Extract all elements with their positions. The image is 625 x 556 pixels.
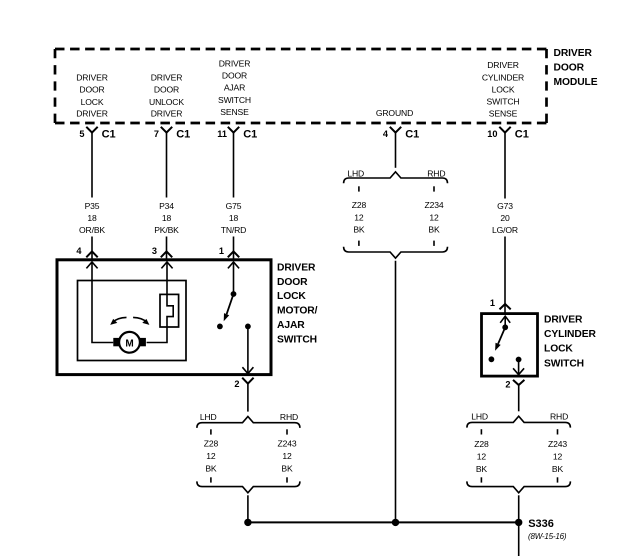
svg-text:DRIVER: DRIVER — [151, 73, 183, 83]
cylinder switch common node — [502, 324, 508, 330]
module U1 driver door module (dashed outline) — [55, 49, 547, 123]
svg-text:4: 4 — [383, 129, 389, 139]
svg-text:2: 2 — [234, 379, 239, 389]
svg-text:18: 18 — [162, 213, 172, 223]
wire label Z28 12 BK (ground LHD) — [352, 200, 367, 235]
svg-text:BK: BK — [552, 464, 564, 474]
svg-text:2: 2 — [505, 380, 510, 390]
entry arrow pin 4 (inside box) — [86, 262, 97, 268]
wire from output node to box bottom — [518, 360, 520, 375]
wire G75 upper segment — [233, 133, 235, 198]
svg-text:OR/BK: OR/BK — [79, 225, 105, 235]
svg-text:CYLINDER: CYLINDER — [544, 329, 596, 340]
svg-text:DOOR: DOOR — [277, 277, 308, 288]
wire P34 upper segment — [166, 133, 168, 198]
wire G73 upper segment — [504, 133, 506, 199]
label: DRIVER DOOR LOCK MOTOR/ AJAR SWITCH — [277, 262, 318, 345]
wire P35 upper segment — [91, 133, 93, 198]
svg-text:DRIVER: DRIVER — [544, 314, 583, 325]
svg-text:SWITCH: SWITCH — [218, 95, 251, 105]
svg-text:12: 12 — [429, 212, 439, 222]
svg-text:LOCK: LOCK — [544, 344, 573, 355]
svg-text:LG/OR: LG/OR — [492, 225, 518, 235]
ajar switch common node — [231, 291, 237, 297]
connector pin 5 C1 — [79, 127, 115, 141]
splice bracket top (right, LHD/RHD) — [467, 412, 571, 428]
inner box around motor assembly — [78, 281, 187, 361]
pin function label: DRIVER CYLINDER LOCK SWITCH SENSE — [482, 60, 524, 119]
svg-text:12: 12 — [354, 212, 364, 222]
svg-text:12: 12 — [206, 451, 216, 461]
svg-text:LOCK: LOCK — [81, 97, 104, 107]
branch stub right LHD — [480, 429, 482, 434]
wire inside box from pin 3 through striker to motor — [147, 263, 174, 343]
svg-text:DRIVER: DRIVER — [554, 48, 593, 59]
branch stub LHD lower — [210, 477, 212, 482]
svg-text:LHD: LHD — [471, 412, 488, 422]
svg-text:3: 3 — [152, 246, 157, 256]
svg-text:C1: C1 — [102, 129, 116, 141]
svg-text:RHD: RHD — [550, 412, 568, 422]
svg-text:AJAR: AJAR — [277, 320, 305, 331]
svg-text:BK: BK — [281, 463, 293, 473]
junction node (ground wire) — [392, 519, 399, 526]
box: driver door lock motor / ajar switch — [57, 260, 271, 375]
wire P35 lower segment — [91, 237, 93, 261]
svg-text:DOOR: DOOR — [222, 71, 247, 81]
svg-text:DRIVER: DRIVER — [219, 59, 251, 69]
svg-text:SWITCH: SWITCH — [487, 97, 520, 107]
connector pin 3 into motor box — [152, 246, 172, 257]
svg-text:DOOR: DOOR — [79, 84, 104, 94]
branch stub ground LHD — [358, 186, 360, 191]
svg-text:12: 12 — [477, 451, 487, 461]
wire label Z243 12 BK (right RHD) — [548, 439, 567, 474]
svg-text:Z243: Z243 — [278, 439, 297, 449]
svg-text:SENSE: SENSE — [489, 109, 518, 119]
wire G75 lower segment — [233, 237, 235, 261]
svg-text:SENSE: SENSE — [220, 107, 249, 117]
wire from right bracket to splice S336 — [518, 495, 520, 522]
svg-text:18: 18 — [87, 213, 97, 223]
svg-text:Z243: Z243 — [548, 439, 567, 449]
rotation arrows over motor — [110, 317, 149, 325]
svg-text:Z234: Z234 — [425, 200, 444, 210]
branch stub right RHD lower — [557, 477, 559, 482]
wire label P34 18 PK/BK — [154, 201, 179, 235]
wire from pin 1 to ajar switch contact — [233, 263, 235, 295]
svg-text:20: 20 — [500, 213, 510, 223]
ajar switch contact node — [217, 324, 223, 330]
entry arrow pin 3 (inside box) — [161, 262, 172, 268]
splice node S336 — [515, 519, 522, 526]
entry arrow pin 1 (inside cylinder switch) — [500, 316, 510, 323]
svg-text:4: 4 — [76, 246, 82, 256]
svg-text:DRIVER: DRIVER — [76, 73, 108, 83]
splice bracket top (left, LHD/RHD) — [197, 412, 300, 428]
connector pin 2 below motor box — [234, 378, 253, 390]
svg-text:G75: G75 — [226, 201, 242, 211]
label: S336 (8W-15-16) — [528, 518, 567, 541]
svg-text:C1: C1 — [243, 129, 257, 141]
wire label G73 20 LG/OR — [492, 201, 518, 235]
svg-text:P35: P35 — [85, 201, 100, 211]
svg-text:G73: G73 — [497, 201, 513, 211]
connector pin 2 below cylinder switch — [505, 380, 524, 390]
connector pin 1 into cylinder lock switch — [490, 298, 511, 309]
svg-text:5: 5 — [79, 129, 84, 139]
svg-text:TN/RD: TN/RD — [221, 225, 247, 235]
wire from pin 2 to splice bracket — [247, 384, 249, 412]
cylinder switch blade — [495, 327, 505, 351]
wire from ground bracket to bus — [395, 261, 397, 523]
cylinder switch contact node — [489, 356, 495, 362]
svg-text:1: 1 — [219, 246, 224, 256]
svg-text:PK/BK: PK/BK — [154, 225, 179, 235]
svg-text:UNLOCK: UNLOCK — [149, 97, 184, 107]
wire G73 lower segment — [504, 237, 506, 315]
wire from pin 2 to right splice bracket — [518, 385, 520, 411]
cylinder switch output node — [516, 357, 522, 363]
pin function label: GROUND — [376, 108, 413, 118]
branch stub right RHD — [557, 429, 559, 434]
svg-text:Z28: Z28 — [204, 439, 219, 449]
branch stub ground RHD — [433, 186, 435, 191]
wire from output node to box bottom — [247, 326, 249, 373]
svg-text:Z28: Z28 — [474, 439, 489, 449]
svg-text:DOOR: DOOR — [154, 84, 179, 94]
connector pin 11 C1 — [217, 127, 257, 141]
svg-text:12: 12 — [282, 451, 292, 461]
svg-text:CYLINDER: CYLINDER — [482, 72, 524, 82]
splice bracket top (ground, LHD/RHD) — [344, 168, 448, 183]
svg-text:SWITCH: SWITCH — [544, 358, 584, 369]
exit arrow pin 2 (inside box) — [242, 367, 253, 373]
wire from S336 to bottom edge — [518, 522, 520, 556]
ground bus wire — [248, 521, 519, 523]
svg-text:P34: P34 — [159, 201, 174, 211]
wire label P35 18 OR/BK — [79, 201, 105, 235]
wire from left bracket to ground bus — [247, 495, 249, 522]
svg-text:DRIVER: DRIVER — [277, 262, 316, 273]
svg-text:AJAR: AJAR — [224, 83, 245, 93]
svg-text:LOCK: LOCK — [277, 291, 306, 302]
exit arrow pin 2 (inside cylinder switch) — [513, 368, 524, 374]
connector pin 4 C1 — [383, 127, 419, 141]
svg-text:DRIVER: DRIVER — [151, 109, 183, 119]
connector pin 4 into motor box — [76, 246, 97, 257]
svg-text:MODULE: MODULE — [554, 77, 598, 88]
connector pin 7 C1 — [154, 127, 190, 141]
wire label Z28 12 BK (left LHD) — [204, 439, 219, 474]
wire label G75 18 TN/RD — [221, 201, 247, 235]
svg-text:(8W-15-16): (8W-15-16) — [528, 532, 567, 541]
branch stub ground RHD lower — [433, 241, 435, 246]
svg-text:12: 12 — [553, 451, 563, 461]
wire label Z243 12 BK (left RHD) — [278, 439, 297, 474]
wire to switch common — [504, 316, 506, 327]
splice bracket bottom (ground) — [344, 247, 448, 258]
box: driver cylinder lock switch — [482, 314, 538, 377]
svg-text:BK: BK — [205, 463, 217, 473]
junction node (left) — [244, 519, 251, 526]
branch stub ground LHD lower — [358, 241, 360, 246]
connector pin 1 into motor box — [219, 246, 239, 257]
svg-text:LHD: LHD — [200, 412, 217, 422]
wire GROUND from pin 4 — [395, 133, 397, 168]
wire label Z28 12 BK (right LHD) — [474, 439, 489, 474]
wire label Z234 12 BK (ground RHD) — [425, 200, 444, 235]
entry arrow pin 1 (inside box) — [228, 262, 239, 268]
svg-text:Z28: Z28 — [352, 200, 367, 210]
wire inside box from pin 4 to motor — [92, 263, 113, 343]
wire P34 lower segment — [166, 237, 168, 261]
label: DRIVER DOOR MODULE — [554, 48, 598, 88]
splice bracket bottom (right) — [467, 481, 571, 492]
ajar switch blade — [224, 294, 234, 321]
svg-text:BK: BK — [353, 225, 365, 235]
svg-text:C1: C1 — [176, 129, 190, 141]
svg-text:7: 7 — [154, 129, 159, 139]
branch stub LHD — [210, 429, 212, 434]
pin function label: DRIVER DOOR UNLOCK DRIVER — [149, 73, 184, 119]
connector pin 10 C1 — [487, 127, 529, 141]
svg-text:RHD: RHD — [427, 168, 445, 178]
svg-text:1: 1 — [490, 298, 495, 308]
svg-text:M: M — [125, 338, 133, 349]
svg-text:BK: BK — [428, 225, 440, 235]
svg-text:MOTOR/: MOTOR/ — [277, 306, 318, 317]
pin function label: DRIVER DOOR AJAR SWITCH SENSE — [218, 59, 251, 117]
svg-text:SWITCH: SWITCH — [277, 334, 317, 345]
ajar switch output node — [245, 324, 251, 330]
svg-text:BK: BK — [476, 464, 488, 474]
pin function label: DRIVER DOOR LOCK DRIVER — [76, 73, 108, 119]
svg-text:DRIVER: DRIVER — [487, 60, 519, 70]
svg-text:GROUND: GROUND — [376, 108, 413, 118]
svg-text:LOCK: LOCK — [492, 84, 515, 94]
svg-text:DRIVER: DRIVER — [76, 109, 108, 119]
svg-text:RHD: RHD — [280, 412, 298, 422]
svg-text:18: 18 — [229, 213, 239, 223]
svg-text:10: 10 — [487, 129, 497, 139]
svg-text:C1: C1 — [515, 129, 529, 141]
splice bracket bottom (left) — [197, 481, 300, 492]
svg-text:S336: S336 — [528, 518, 554, 530]
ajar switch striker component — [160, 294, 179, 327]
motor M (circle with brushes) — [113, 332, 146, 353]
branch stub RHD lower — [286, 477, 288, 482]
svg-text:LHD: LHD — [347, 168, 364, 178]
svg-text:11: 11 — [217, 129, 227, 139]
svg-text:DOOR: DOOR — [554, 62, 585, 73]
branch stub RHD — [286, 429, 288, 434]
label: DRIVER CYLINDER LOCK SWITCH — [544, 314, 596, 369]
svg-text:C1: C1 — [405, 129, 419, 141]
branch stub right LHD lower — [480, 477, 482, 482]
